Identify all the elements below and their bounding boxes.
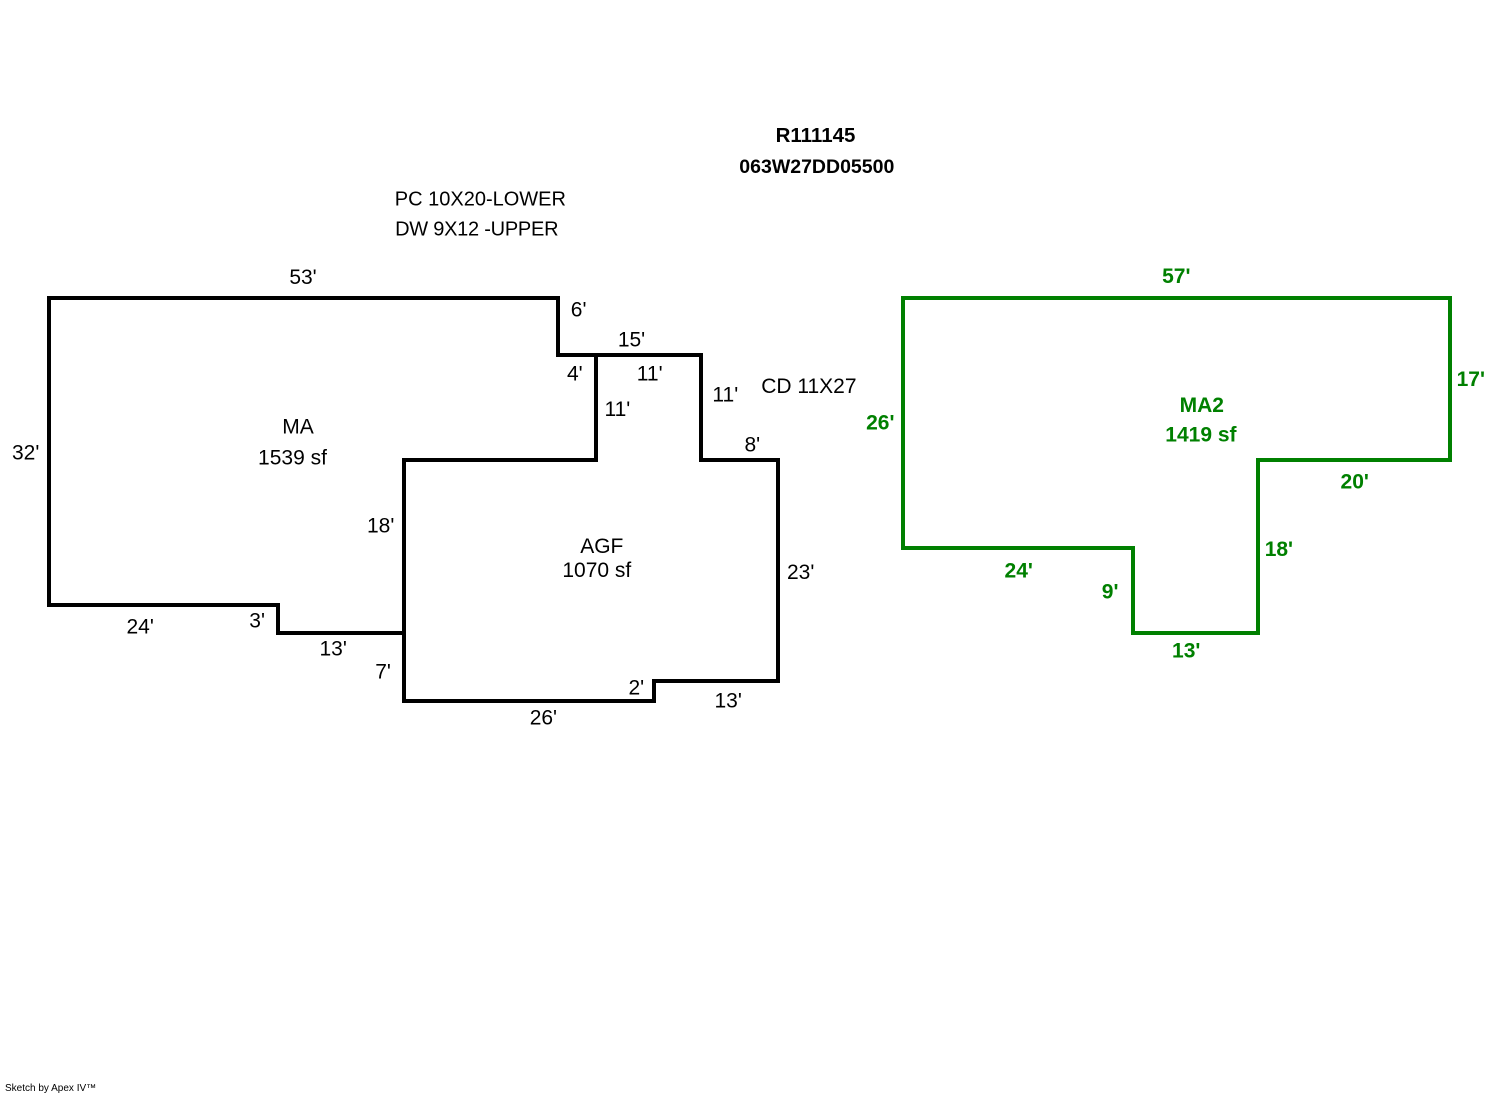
svg-text:Sketch by Apex IV™: Sketch by Apex IV™ — [5, 1083, 96, 1094]
svg-text:CD 11X27: CD 11X27 — [761, 375, 856, 398]
svg-text:11': 11' — [637, 363, 663, 386]
svg-text:AGF: AGF — [580, 535, 623, 558]
svg-text:26': 26' — [866, 411, 894, 434]
AGF garage + CD carport column outline — [404, 355, 778, 701]
svg-text:53': 53' — [289, 266, 316, 289]
svg-text:32': 32' — [12, 441, 39, 464]
svg-text:13': 13' — [320, 638, 347, 661]
svg-text:DW 9X12 -UPPER: DW 9X12 -UPPER — [395, 219, 558, 241]
svg-text:1419 sf: 1419 sf — [1165, 424, 1237, 447]
svg-text:3': 3' — [249, 609, 265, 632]
svg-text:24': 24' — [1005, 560, 1033, 583]
svg-text:20': 20' — [1341, 471, 1369, 494]
svg-text:57': 57' — [1162, 265, 1190, 288]
svg-text:17': 17' — [1457, 368, 1485, 391]
svg-text:6': 6' — [571, 299, 587, 322]
svg-text:MA: MA — [282, 416, 314, 439]
svg-text:23': 23' — [787, 561, 814, 584]
svg-text:MA2: MA2 — [1180, 394, 1224, 417]
svg-text:1070 sf: 1070 sf — [562, 559, 631, 582]
svg-text:13': 13' — [1172, 639, 1200, 662]
svg-text:PC 10X20-LOWER: PC 10X20-LOWER — [395, 189, 566, 211]
svg-text:15': 15' — [618, 329, 645, 352]
svg-text:24': 24' — [127, 616, 154, 639]
svg-text:26': 26' — [530, 706, 557, 729]
svg-text:9': 9' — [1102, 581, 1119, 604]
svg-text:2': 2' — [629, 677, 645, 700]
svg-text:18': 18' — [367, 514, 394, 537]
svg-text:7': 7' — [375, 660, 391, 683]
svg-text:11': 11' — [712, 384, 738, 407]
MA2 second dwelling outline (green) — [903, 298, 1450, 633]
svg-text:13': 13' — [715, 689, 742, 712]
svg-text:11': 11' — [605, 398, 631, 421]
svg-text:R111145: R111145 — [776, 124, 856, 147]
svg-text:8': 8' — [745, 434, 761, 457]
svg-text:063W27DD05500: 063W27DD05500 — [739, 156, 894, 178]
svg-text:1539 sf: 1539 sf — [258, 447, 327, 470]
svg-text:4': 4' — [567, 362, 583, 385]
MA dwelling outline (53x32 main area) — [49, 298, 596, 633]
svg-text:18': 18' — [1265, 538, 1293, 561]
